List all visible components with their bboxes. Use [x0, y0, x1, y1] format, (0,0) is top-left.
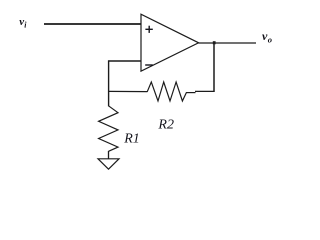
svg-text:o: o: [268, 35, 272, 45]
wire op-amp output: [198, 42, 256, 44]
wire feedback down from output: [213, 43, 215, 92]
resistor R1: [99, 106, 118, 152]
wire R1 to ground: [108, 151, 110, 159]
node vi label: [19, 16, 27, 30]
ground: [98, 159, 119, 169]
wire R2 left lead to node: [109, 90, 148, 92]
wire feedback to R2 right lead: [195, 90, 214, 92]
svg-text:R1: R1: [123, 132, 140, 147]
svg-text:R2: R2: [157, 118, 174, 133]
svg-text:i: i: [24, 20, 27, 29]
resistor R2: [147, 82, 186, 101]
node vo label: [262, 29, 272, 45]
wire input vi to op-amp +: [44, 23, 142, 25]
junction output node: [213, 41, 216, 44]
wire inverting input: [109, 60, 141, 62]
op-amp U1: [141, 14, 199, 71]
wire left vertical from inverting input through node to R1: [108, 60, 110, 106]
